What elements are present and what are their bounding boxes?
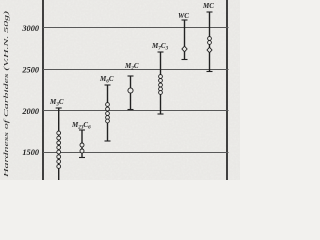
series M3C data circles [57,131,61,168]
series M2C range bar [128,76,134,110]
series M7C3 data circles [159,75,163,95]
series M23C6 range bar [79,130,85,158]
series M2C data circle [128,88,133,93]
paper background [0,0,240,180]
right border line [226,0,228,180]
series WC data diamond [182,46,187,52]
series MC range bar [207,12,213,72]
left axis line [42,0,44,180]
gridline 1500 [43,152,229,154]
series M23C6 data circles [80,143,84,153]
faint scan noise overlay [0,0,1,1]
series MC data circles [208,37,212,45]
series WC range bar [182,20,188,60]
series M3C range bar [56,108,62,180]
series MC data diamond [207,47,212,52]
gridline 2000 [43,110,229,112]
gridline 3000 [43,27,229,29]
series M6C range bar [105,85,111,141]
series M7C3 range bar [158,52,164,114]
gridline 2500 [43,69,229,71]
series M6C data circles [106,103,110,123]
